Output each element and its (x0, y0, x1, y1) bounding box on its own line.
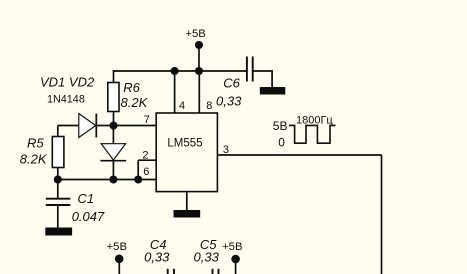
ground (C6) (260, 87, 286, 95)
wire: top +5V rail (113, 70, 247, 72)
wire: R5 bottom stem (57, 168, 59, 180)
junction dot pin4 branch (171, 67, 179, 75)
wire: +5B bottom-right stem (235, 259, 237, 274)
junction dot VD2 cathode (109, 175, 117, 183)
wire: pin 8 lead (198, 71, 200, 114)
svg-text:0: 0 (278, 135, 285, 149)
power label +5B (bottom right) (222, 241, 242, 253)
svg-text:5B: 5B (273, 119, 288, 133)
resistor R6 (108, 83, 119, 112)
wire: VD2 top stem (112, 126, 114, 144)
pin number 7 (144, 114, 150, 126)
label C6 value 0,33 (216, 93, 242, 108)
IC U1 LM555 (156, 113, 217, 192)
wire: pin 2 lead (138, 159, 156, 161)
ground (C1) (45, 228, 72, 236)
waveform: output square wave (289, 125, 336, 143)
wire: IC ground stem (186, 192, 188, 211)
junction dot pin8 branch (195, 67, 203, 75)
wire: pin2-pin6 connector (137, 160, 139, 179)
label R6 value 8.2K (121, 95, 149, 110)
svg-text:0.047: 0.047 (72, 209, 105, 224)
wire: pin 3 output lead (217, 154, 381, 156)
wire: R5 top stem (57, 126, 59, 137)
label 1N4148 (47, 94, 85, 106)
svg-text:1N4148: 1N4148 (47, 94, 85, 106)
svg-text:C1: C1 (78, 191, 95, 206)
label C1 value 0.047 (72, 209, 105, 224)
svg-text:4: 4 (179, 100, 185, 112)
label R5 value 8.2K (20, 152, 48, 167)
ground (IC) (174, 210, 201, 218)
svg-text:7: 7 (144, 114, 150, 126)
node: +5B bottom-left dot (115, 254, 124, 263)
label C5 value 0,33 (194, 249, 220, 264)
svg-text:0,33: 0,33 (144, 249, 170, 264)
label C6 (223, 75, 240, 90)
label C1 (78, 191, 95, 206)
label C4 (150, 237, 167, 252)
svg-text:R6: R6 (123, 80, 140, 95)
svg-text:3: 3 (223, 144, 229, 156)
diode VD1 (79, 114, 97, 138)
wire: bottom net (pin 6) (58, 179, 156, 181)
resistor R5 (52, 137, 64, 168)
junction dot VD1 cathode / R6 / VD2 (109, 121, 117, 129)
svg-text:0,33: 0,33 (216, 93, 242, 108)
svg-text:VD1 VD2: VD1 VD2 (40, 74, 95, 89)
label C4 value 0,33 (144, 249, 170, 264)
pin number 4 (179, 100, 185, 112)
svg-text:8.2K: 8.2K (20, 152, 48, 167)
svg-text:LM555: LM555 (167, 137, 202, 149)
power label +5B (top) (185, 28, 205, 40)
svg-text:2: 2 (142, 150, 148, 162)
pin number 3 (223, 144, 229, 156)
wire: pin 7 lead (96, 125, 156, 127)
wire: output vertical drop (381, 155, 383, 274)
node: +5B terminal dot (195, 41, 203, 49)
svg-text:8.2K: 8.2K (121, 95, 149, 110)
label R6 (123, 80, 140, 95)
waveform label 1800Hz (296, 114, 333, 126)
diode VD2 (100, 144, 126, 161)
svg-text:R5: R5 (27, 135, 44, 150)
label VD1 VD2 (40, 74, 95, 89)
svg-text:+5B: +5B (107, 241, 127, 253)
capacitor C5 (partially visible plates) (213, 269, 219, 274)
svg-text:C6: C6 (223, 75, 240, 90)
wire: R6 top stem (113, 70, 115, 82)
pin number 8 (206, 100, 212, 112)
label C5 (200, 237, 217, 252)
waveform label 0 (278, 135, 285, 149)
svg-text:6: 6 (143, 166, 149, 178)
svg-text:8: 8 (206, 100, 212, 112)
svg-text:+5B: +5B (185, 28, 205, 40)
wire: VD2 bottom stem (112, 161, 114, 180)
power label +5B (bottom left) (107, 241, 127, 253)
svg-text:+5B: +5B (222, 241, 242, 253)
wire: C1 bottom stem (57, 205, 59, 229)
svg-text:1800Гц: 1800Гц (296, 114, 333, 126)
wire: C6 to ground (253, 71, 272, 88)
junction dot R5/C1 (54, 175, 62, 183)
capacitor C4 (partially visible plates) (168, 269, 174, 274)
label R5 (27, 135, 44, 150)
node: +5B bottom-right dot (231, 255, 240, 264)
capacitor C1 (46, 199, 71, 205)
wire: VD1 anode lead (58, 125, 79, 127)
wire: R6 bottom stem (113, 112, 115, 126)
svg-text:0,33: 0,33 (194, 249, 220, 264)
capacitor C6 (247, 57, 253, 82)
wire: pin 4 lead (174, 71, 176, 114)
wire: +5B bottom-left stem (118, 259, 120, 274)
wire: +5B stem down to rail (198, 45, 200, 71)
junction dot pin2 connector (134, 175, 142, 183)
pin number 2 (142, 150, 148, 162)
waveform label 5B (273, 119, 288, 133)
pin number 6 (143, 166, 149, 178)
wire: C1 top stem (57, 180, 59, 199)
